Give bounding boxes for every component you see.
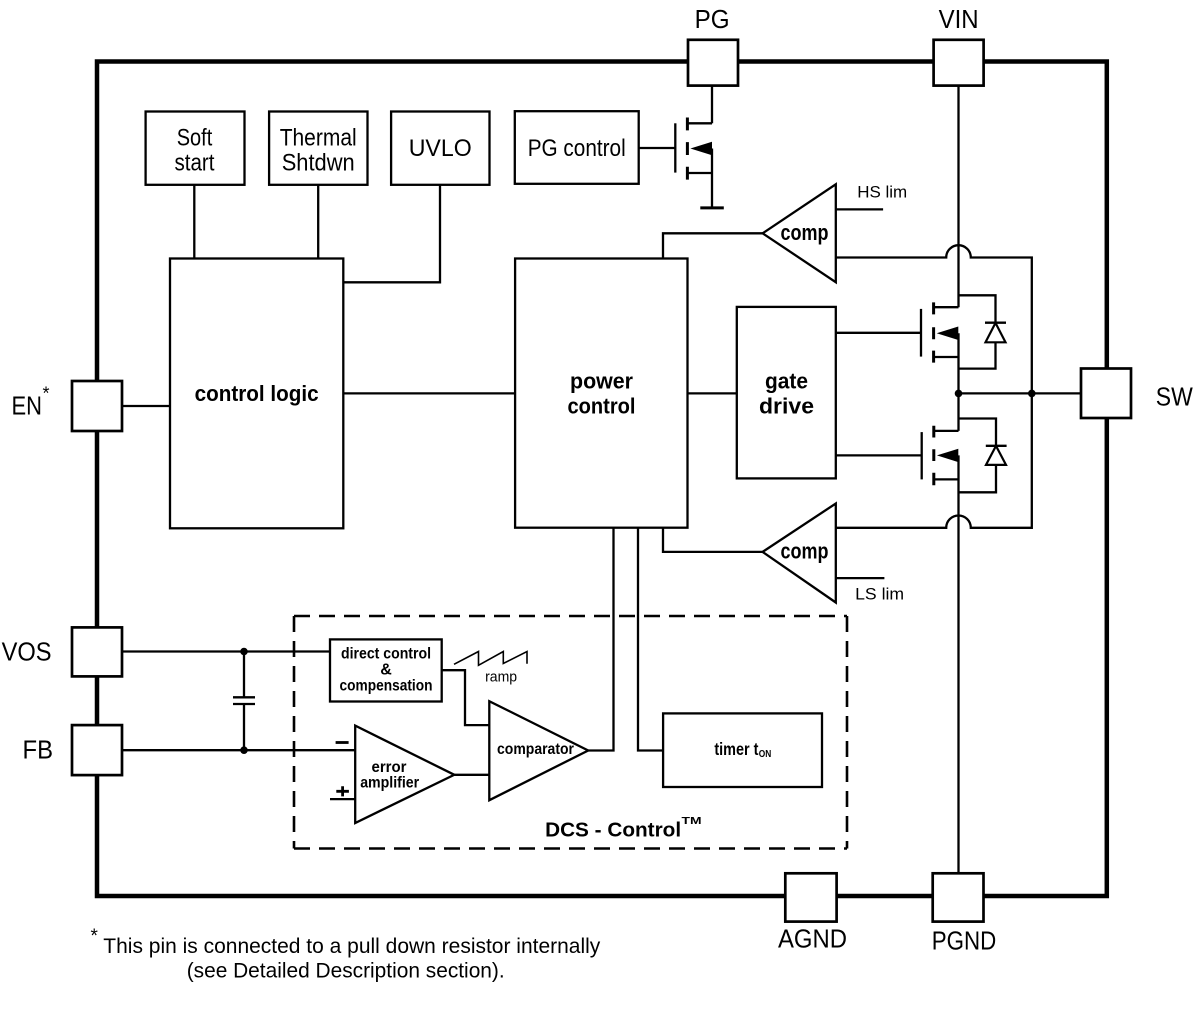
- transistor Q2 (low side) gate plate: [921, 432, 923, 479]
- op-amp U4 error amplifier: [355, 726, 454, 823]
- svg-text:UVLO: UVLO: [409, 135, 472, 162]
- svg-text:gate: gate: [765, 368, 808, 393]
- wire FB pin to error amplifier: [122, 749, 355, 751]
- svg-text:TM: TM: [682, 815, 702, 827]
- op-amp U3 comp low side: [763, 504, 836, 603]
- IC outer boundary: [97, 62, 1107, 897]
- wire PG control to Q3 gate: [639, 147, 676, 149]
- svg-text:PG control: PG control: [528, 135, 626, 162]
- error amplifier minus sign: [336, 741, 349, 744]
- wire EN pin to control logic: [122, 405, 170, 407]
- wire Q2 source to PGND: [957, 455, 959, 873]
- pin VIN: [934, 40, 984, 86]
- error amplifier plus sign: [336, 786, 349, 796]
- transistor Q1 channel bars: [932, 302, 935, 362]
- diode D1 cathode bar: [985, 322, 1006, 324]
- wire comparator output to power control: [588, 528, 613, 750]
- transistor Q2 channel bars: [932, 426, 935, 485]
- transistor Q1 (high side) gate plate: [920, 309, 922, 357]
- svg-text:ON: ON: [759, 748, 772, 760]
- svg-text:PG: PG: [695, 4, 730, 34]
- wire soft start to control logic: [193, 185, 195, 259]
- wire comp U3 output to power control: [663, 528, 763, 552]
- svg-text:drive: drive: [759, 393, 814, 418]
- node FB junction dot: [240, 746, 248, 754]
- ramp waveform: [454, 652, 527, 666]
- svg-text:comp: comp: [781, 220, 829, 245]
- svg-text:Soft: Soft: [177, 125, 213, 152]
- wire VOS pin to direct control: [122, 650, 330, 652]
- svg-text:DCS - Control: DCS - Control: [545, 820, 681, 842]
- node SW junction dot right: [1028, 390, 1036, 398]
- wire control logic to power control: [343, 392, 515, 394]
- transistor Q3 drain contact: [687, 122, 712, 124]
- block Thermal Shtdwn: [269, 112, 367, 185]
- capacitor C1: [233, 652, 255, 751]
- svg-text:LS lim: LS lim: [855, 584, 904, 603]
- diode D2 cathode bar: [986, 445, 1007, 447]
- transistor Q2 drain contact: [934, 430, 959, 432]
- wire SW node to SW pin: [959, 392, 1082, 394]
- svg-text:HS lim: HS lim: [857, 183, 907, 202]
- wire comp U2 input from SW node with hop: [836, 245, 1032, 393]
- block control logic: [170, 259, 343, 529]
- transistor Q2 body arrow: [937, 449, 958, 462]
- wire power control to gate drive: [688, 392, 737, 394]
- svg-text:Thermal: Thermal: [280, 125, 357, 152]
- transistor Q3 (PG PMOS) gate plate: [674, 123, 676, 172]
- pin PG: [688, 40, 738, 86]
- svg-text:control: control: [568, 393, 636, 418]
- diode D2 triangle: [986, 446, 1006, 465]
- wire comp U2 output to power control: [663, 233, 763, 258]
- block power control: [515, 259, 687, 528]
- svg-text:&: &: [380, 662, 392, 679]
- wire Q1 source to SW node to Q2 drain: [957, 333, 959, 431]
- ground: [700, 206, 724, 209]
- pin SW: [1081, 369, 1131, 419]
- wire power control to timer: [638, 528, 663, 750]
- transistor Q1 drain contact: [934, 306, 959, 308]
- op-amp U2 comp high side: [763, 184, 836, 282]
- wire error amplifier to comparator: [454, 774, 489, 776]
- svg-text:VOS: VOS: [2, 637, 52, 667]
- transistor Q2 source contact: [934, 478, 959, 480]
- pin PGND: [933, 873, 984, 921]
- block timer tON: [663, 713, 822, 787]
- wire Q3 source to ground: [711, 149, 713, 208]
- svg-text:amplifier: amplifier: [360, 775, 419, 792]
- svg-text:EN: EN: [12, 390, 43, 420]
- wire gate drive to Q1 gate: [836, 332, 921, 334]
- svg-text:*: *: [91, 926, 99, 947]
- svg-text:(see Detailed Description sect: (see Detailed Description section).: [187, 958, 505, 982]
- svg-text:AGND: AGND: [778, 923, 847, 953]
- transistor Q3 source contact: [687, 172, 712, 174]
- svg-text:timer t: timer t: [714, 739, 758, 759]
- wire VIN to Q1 drain: [957, 86, 959, 307]
- wire thermal shutdown to control logic: [317, 185, 319, 259]
- pin FB: [72, 725, 122, 775]
- pin VOS: [72, 627, 122, 676]
- svg-text:comparator: comparator: [497, 741, 574, 758]
- block UVLO: [391, 112, 489, 185]
- op-amp U5 comparator: [489, 701, 588, 800]
- transistor Q3 body arrow: [690, 142, 712, 155]
- svg-text:comp: comp: [781, 538, 829, 563]
- wire direct control to comparator: [442, 670, 490, 725]
- svg-text:start: start: [175, 150, 215, 177]
- block Soft start: [146, 112, 245, 185]
- pin AGND: [785, 873, 836, 921]
- block PG control: [515, 111, 639, 184]
- svg-text:SW: SW: [1156, 382, 1193, 412]
- wire Q3 drain to PG pin: [711, 86, 713, 123]
- block direct control and compensation: [330, 639, 442, 701]
- svg-text:VIN: VIN: [939, 4, 979, 34]
- transistor Q1 source contact: [934, 356, 959, 358]
- svg-text:Shtdwn: Shtdwn: [282, 150, 355, 177]
- pin EN: [72, 381, 122, 431]
- svg-text:compensation: compensation: [340, 678, 433, 695]
- svg-text:This pin is connected to a pul: This pin is connected to a pull down res…: [103, 934, 600, 958]
- transistor Q3 channel bars: [686, 118, 689, 180]
- svg-text:error: error: [372, 759, 407, 776]
- diode D1 (Q1 body diode) connection: [959, 295, 996, 368]
- wire LS lim stub: [836, 577, 885, 579]
- block gate drive: [737, 307, 836, 479]
- svg-text:control logic: control logic: [195, 381, 319, 406]
- svg-text:*: *: [43, 384, 50, 404]
- wire error amplifier plus input stub: [330, 798, 355, 800]
- node SW junction dot left: [955, 390, 963, 398]
- svg-text:FB: FB: [23, 734, 54, 764]
- wire HS lim stub: [836, 208, 883, 210]
- svg-text:PGND: PGND: [932, 926, 997, 956]
- transistor Q1 body arrow: [937, 327, 959, 341]
- DCS-Control dashed boundary: [294, 616, 847, 849]
- diode D2 (Q2 body diode) connection: [959, 419, 997, 493]
- svg-text:direct control: direct control: [341, 646, 431, 663]
- wire UVLO to control logic: [343, 185, 440, 283]
- node VOS junction dot: [240, 648, 248, 656]
- svg-text:ramp: ramp: [485, 668, 517, 685]
- diode D1 triangle: [986, 323, 1006, 342]
- wire gate drive to Q2 gate: [836, 454, 922, 456]
- wire comp U3 input from SW node with hop: [836, 393, 1032, 527]
- svg-text:power: power: [570, 368, 633, 393]
